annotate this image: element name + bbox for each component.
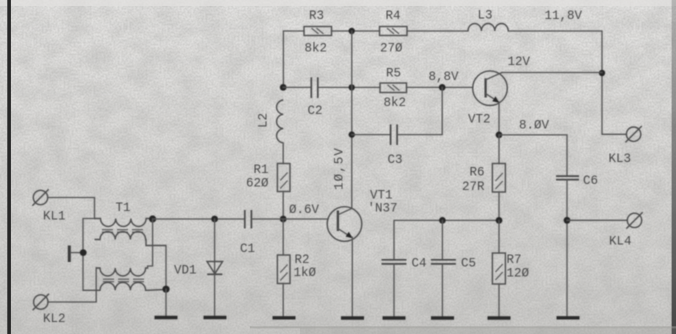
capacitor C4 [382, 260, 407, 264]
resistor R1 [277, 164, 290, 192]
svg-text:8k2: 8k2 [305, 42, 328, 56]
svg-text:27R: 27R [462, 180, 485, 194]
svg-text:'N37: 'N37 [368, 202, 398, 216]
wire R2 to ground [282, 219, 284, 316]
node mid column at C2 row [349, 84, 355, 90]
wire R6 to node [498, 192, 500, 220]
wire R7 to ground [498, 284, 500, 316]
wire R4 to L3 [407, 30, 468, 32]
shield electrode of T1 [68, 246, 71, 263]
wire KL1 to T1 [48, 198, 95, 219]
svg-text:R2: R2 [295, 253, 310, 267]
resistor R2 [277, 255, 290, 284]
svg-text:Ø.6V: Ø.6V [289, 203, 320, 217]
wire VT2 collector to 12V node [502, 72, 602, 74]
wire C3 right and up to 8,8V node [397, 87, 442, 134]
svg-text:R3: R3 [309, 9, 324, 23]
svg-text:C2: C2 [308, 104, 323, 118]
svg-text:R1: R1 [254, 163, 269, 177]
wire R1 to base node [282, 192, 284, 220]
resistor R7 [492, 253, 505, 284]
node emitter 8.0V junction [496, 132, 503, 139]
svg-text:1Ø,5V: 1Ø,5V [333, 147, 347, 190]
svg-text:11,8V: 11,8V [545, 9, 583, 23]
node C3 left junction [349, 131, 355, 137]
wire R3 to R4 [332, 30, 380, 32]
node 12V collector junction [599, 70, 605, 76]
transformer T1 lower secondary winding [96, 282, 168, 290]
node T1 bottom junction [162, 286, 169, 293]
node KL4 junction [564, 217, 571, 224]
capacitor C6 [556, 176, 579, 180]
svg-text:12V: 12V [508, 55, 531, 69]
transistor VT2 [473, 71, 508, 106]
wire to KL4 [567, 219, 627, 221]
wire T1 tap down to lower winding [148, 219, 153, 268]
wire shield branch [48, 219, 96, 303]
svg-text:R7: R7 [507, 253, 522, 267]
terminal KL3 [625, 126, 641, 142]
wire C4 to ground [393, 264, 395, 316]
svg-text:KL3: KL3 [609, 152, 632, 166]
ground of R7 [488, 316, 511, 319]
ground of C5 [431, 316, 454, 319]
svg-text:C5: C5 [461, 257, 476, 271]
svg-text:1kØ: 1kØ [294, 266, 317, 280]
resistor R5 [380, 83, 407, 93]
svg-text:R6: R6 [470, 166, 485, 180]
wire VT1 emitter to ground [351, 237, 353, 316]
vertical net wire 10,5V column [351, 31, 353, 208]
wire VD1 down [214, 219, 216, 274]
svg-text:R5: R5 [386, 67, 401, 81]
ground of R2 column [273, 316, 296, 319]
capacitor C5 [431, 260, 456, 264]
wire VT2 emitter down [498, 102, 500, 135]
transformer T1 upper secondary winding [95, 232, 167, 246]
wire C1 to VT1 base [252, 218, 328, 220]
wire L3 to right corner and down to KL3 [508, 31, 626, 134]
node base junction 0.6V [280, 216, 287, 223]
node C2/L2 junction [280, 84, 287, 91]
terminal KL4 [626, 212, 642, 228]
capacitor C3 [391, 124, 398, 145]
wire C6 down to ground [566, 180, 568, 317]
wire top row from R3 left corner down to C2 node [283, 31, 304, 87]
wire C5 down [441, 220, 443, 259]
svg-text:KL2: KL2 [43, 312, 66, 326]
node C5 junction [439, 217, 446, 224]
wire C3 left [352, 134, 391, 136]
wire C4 corner and row to R7 [394, 220, 499, 259]
wire R5 to VT2 base [407, 86, 473, 88]
wire emitter node to R6 [498, 135, 500, 164]
node T1 output junction [149, 215, 156, 222]
wire VD1 to ground [214, 274, 216, 316]
ground of C4 [383, 316, 406, 319]
svg-text:27Ø: 27Ø [380, 42, 403, 56]
ground of VD1 [204, 316, 227, 319]
svg-text:12Ø: 12Ø [507, 267, 530, 281]
capacitor C1 [245, 210, 252, 229]
svg-text:C4: C4 [412, 257, 427, 271]
resistor R3 [304, 27, 332, 36]
wire L2 to R1 [282, 143, 284, 164]
wire upper secondary to VD1 node [165, 246, 167, 290]
ground of VT1 [341, 316, 364, 319]
svg-text:C3: C3 [388, 153, 403, 167]
svg-text:KL1: KL1 [43, 210, 66, 224]
svg-text:62Ø: 62Ø [246, 177, 269, 191]
transformer T1 upper core [102, 230, 143, 233]
svg-text:8.ØV: 8.ØV [519, 119, 550, 133]
svg-text:C1: C1 [240, 242, 255, 256]
svg-text:VT2: VT2 [468, 113, 491, 127]
transistor VT1 [327, 207, 362, 242]
wire C2 node to C2 left plate [283, 86, 311, 88]
svg-text:VT1: VT1 [370, 189, 393, 203]
inductor L3 [468, 24, 508, 31]
node shield junction [80, 249, 87, 256]
capacitor C2 [311, 77, 318, 98]
svg-text:8,8V: 8,8V [429, 70, 460, 84]
wire 8.0V node to C6 column [499, 135, 567, 176]
svg-text:8k2: 8k2 [384, 96, 407, 110]
wire T1 bottom to ground [165, 289, 167, 316]
resistor R4 [380, 27, 408, 36]
ground of T1 [155, 316, 178, 319]
wire C5 to ground [441, 264, 443, 316]
node R3/R4 junction [349, 28, 355, 34]
resistor R6 [492, 164, 505, 193]
wire node to R7 [498, 220, 500, 253]
svg-text:VD1: VD1 [174, 264, 197, 278]
svg-text:KL4: KL4 [609, 235, 632, 249]
node R7 junction [496, 217, 503, 224]
node VD1 junction [211, 216, 218, 223]
svg-text:T1: T1 [116, 201, 131, 215]
node 8,8V base junction [439, 84, 446, 91]
wire main line T1 to C1 [153, 218, 245, 220]
ground of C6 column [557, 316, 580, 319]
svg-text:C6: C6 [583, 174, 598, 188]
svg-text:R4: R4 [386, 9, 401, 23]
inductor L2 [277, 100, 284, 143]
transformer T1 upper primary winding [95, 219, 151, 227]
transformer T1 lower primary winding [96, 268, 147, 276]
wire shield bar to node [71, 252, 84, 254]
transformer T1 lower core [103, 279, 144, 282]
diode VD1 [207, 262, 223, 275]
svg-text:L2: L2 [257, 113, 271, 128]
terminal KL1 [32, 189, 48, 205]
wire C2 to R5 [318, 86, 380, 88]
svg-text:L3: L3 [478, 9, 493, 23]
terminal KL2 [33, 294, 49, 310]
